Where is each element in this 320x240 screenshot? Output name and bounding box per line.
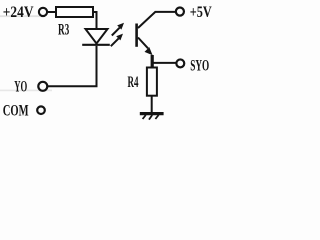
wire R3 to corner and down to LED anode: [93, 12, 97, 29]
LED D1 cathode bar: [82, 44, 110, 46]
LED emission arrow 1: [112, 23, 124, 36]
svg-text:+24V: +24V: [3, 4, 34, 21]
resistor R3: [56, 7, 93, 17]
node COM label: [3, 103, 29, 120]
svg-text:SYO: SYO: [190, 57, 209, 74]
terminal +5V: [176, 8, 184, 16]
svg-text:R3: R3: [58, 21, 69, 38]
node YO label: [14, 78, 27, 95]
wire terminal to R3: [48, 11, 56, 13]
wire R4 to ground: [151, 97, 153, 114]
terminal COM: [37, 106, 45, 114]
svg-text:COM: COM: [3, 103, 29, 120]
label R3: [58, 21, 69, 38]
wire junction to SYO terminal: [152, 62, 176, 64]
svg-text:R4: R4: [128, 74, 139, 91]
terminal SYO: [176, 59, 184, 67]
phototransistor Q1 emitter with arrow: [138, 38, 153, 56]
node SYO label: [190, 57, 209, 74]
node +5V label: [190, 4, 212, 21]
terminal YO: [38, 82, 47, 91]
LED emission arrow 2: [111, 34, 123, 47]
wire LED cathode down to YO corner: [47, 46, 96, 86]
junction node emitter/R4/SYO: [151, 55, 154, 67]
svg-text:+5V: +5V: [190, 4, 212, 21]
resistor R4: [147, 68, 157, 96]
svg-text:YO: YO: [14, 78, 27, 95]
LED D1 triangle (anode): [86, 29, 108, 44]
phototransistor Q1 collector: [138, 12, 176, 28]
node +24V label: [3, 4, 34, 21]
ground: [140, 114, 164, 120]
phototransistor Q1 base bar: [135, 24, 138, 47]
label R4: [128, 74, 139, 91]
terminal +24V: [39, 8, 47, 16]
